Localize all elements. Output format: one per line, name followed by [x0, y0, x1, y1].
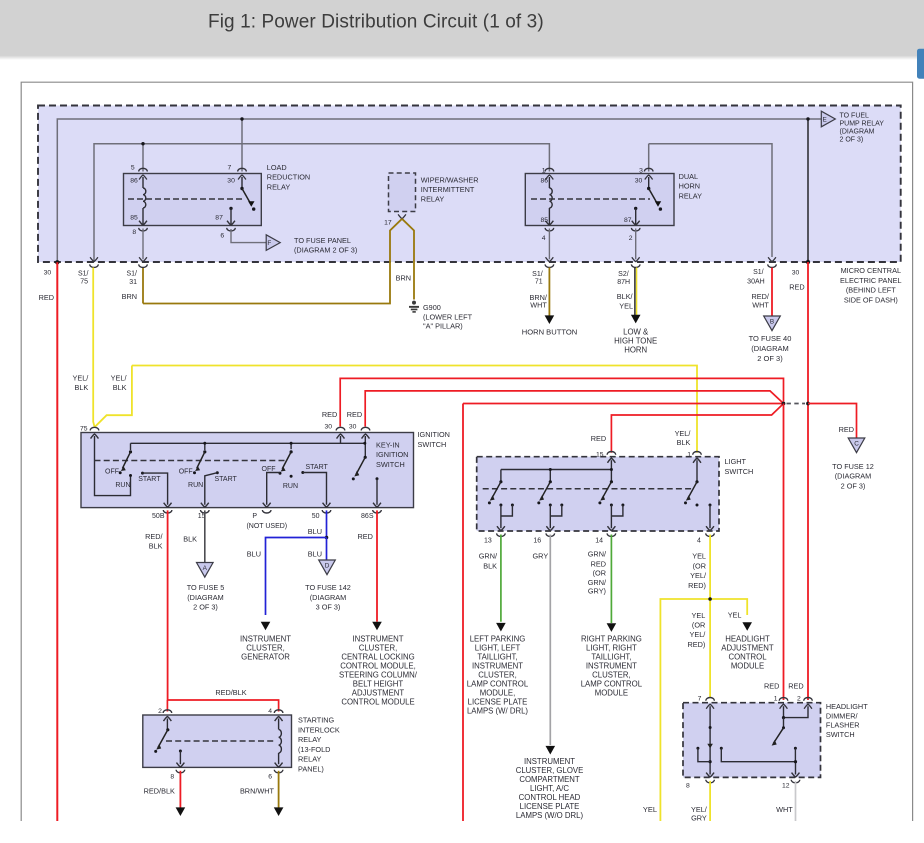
svg-text:BRN/WHT: BRN/WHT	[240, 787, 275, 796]
svg-text:S1/: S1/	[78, 270, 89, 277]
svg-text:Fig 1: Power Distribution Circ: Fig 1: Power Distribution Circuit (1 of …	[208, 12, 544, 33]
svg-text:8: 8	[170, 774, 174, 781]
svg-text:START: START	[306, 464, 329, 471]
svg-text:CONTROL: CONTROL	[728, 652, 767, 661]
svg-text:SWITCH: SWITCH	[418, 440, 447, 449]
svg-text:TAILLIGHT,: TAILLIGHT,	[591, 652, 631, 661]
svg-text:YEL: YEL	[692, 552, 706, 561]
svg-text:CLUSTER,: CLUSTER,	[592, 670, 631, 679]
svg-text:INSTRUMENT: INSTRUMENT	[524, 757, 575, 766]
svg-text:OFF: OFF	[105, 468, 119, 475]
svg-text:INSTRUMENT: INSTRUMENT	[472, 661, 523, 670]
svg-text:LAMPS (W/O DRL): LAMPS (W/O DRL)	[516, 811, 584, 820]
svg-text:CONTROL HEAD: CONTROL HEAD	[519, 793, 581, 802]
svg-text:85: 85	[540, 217, 548, 224]
svg-text:LIGHT: LIGHT	[725, 457, 747, 466]
svg-text:RED/BLK: RED/BLK	[144, 787, 175, 796]
svg-text:RED/: RED/	[145, 532, 163, 541]
svg-text:(OR: (OR	[693, 562, 706, 571]
svg-text:30: 30	[349, 424, 357, 431]
svg-text:PANEL): PANEL)	[298, 765, 324, 774]
svg-text:31: 31	[129, 279, 137, 286]
svg-text:4: 4	[542, 235, 546, 242]
svg-text:CLUSTER,: CLUSTER,	[359, 643, 398, 652]
svg-text:DIMMER/: DIMMER/	[826, 711, 859, 720]
svg-text:(DIAGRAM: (DIAGRAM	[840, 129, 875, 136]
svg-text:(DIAGRAM: (DIAGRAM	[187, 593, 224, 602]
svg-text:BLU: BLU	[308, 527, 322, 536]
svg-text:LEFT PARKING: LEFT PARKING	[470, 634, 526, 643]
svg-text:GRY: GRY	[691, 814, 707, 823]
svg-text:GRN/: GRN/	[479, 552, 498, 561]
svg-text:RELAY: RELAY	[298, 735, 322, 744]
svg-text:HEADLIGHT: HEADLIGHT	[826, 702, 868, 711]
svg-text:LIGHT, A/C: LIGHT, A/C	[530, 784, 569, 793]
svg-text:TO FUEL: TO FUEL	[840, 113, 870, 120]
svg-text:YEL/: YEL/	[690, 571, 707, 580]
svg-text:BLK: BLK	[483, 562, 497, 571]
svg-text:RED: RED	[764, 681, 779, 690]
svg-text:RED: RED	[839, 425, 854, 434]
svg-text:85: 85	[130, 215, 138, 222]
svg-text:SIDE OF DASH): SIDE OF DASH)	[844, 295, 898, 304]
svg-text:3: 3	[639, 167, 643, 174]
svg-text:YEL/: YEL/	[72, 374, 89, 383]
svg-text:TAILLIGHT,: TAILLIGHT,	[477, 652, 517, 661]
svg-text:B: B	[770, 319, 774, 326]
svg-text:S2/: S2/	[618, 271, 629, 278]
svg-text:BRN: BRN	[122, 292, 137, 301]
svg-text:(13-FOLD: (13-FOLD	[298, 745, 330, 754]
svg-text:P: P	[252, 513, 257, 520]
svg-text:SWITCH: SWITCH	[826, 730, 855, 739]
svg-text:50B: 50B	[152, 513, 165, 520]
svg-text:YEL: YEL	[692, 611, 706, 620]
svg-text:MODULE: MODULE	[595, 688, 628, 697]
svg-text:HORN BUTTON: HORN BUTTON	[522, 327, 578, 336]
svg-text:2: 2	[629, 235, 633, 242]
svg-text:SWITCH: SWITCH	[376, 460, 405, 469]
svg-text:(OR: (OR	[593, 569, 606, 578]
svg-text:RED): RED)	[687, 640, 705, 649]
svg-text:1: 1	[542, 167, 546, 174]
svg-text:START: START	[215, 476, 238, 483]
svg-text:C: C	[854, 441, 859, 448]
svg-text:LOW &: LOW &	[623, 328, 649, 337]
svg-text:87H: 87H	[617, 279, 630, 286]
svg-text:LAMP CONTROL: LAMP CONTROL	[467, 679, 529, 688]
svg-text:BLK: BLK	[113, 383, 127, 392]
svg-text:KEY-IN: KEY-IN	[376, 440, 400, 449]
svg-text:RED/BLK: RED/BLK	[215, 688, 246, 697]
svg-text:6: 6	[220, 233, 224, 240]
svg-text:S1/: S1/	[532, 271, 543, 278]
svg-text:INTERLOCK: INTERLOCK	[298, 725, 340, 734]
svg-text:STARTING: STARTING	[298, 716, 335, 725]
svg-text:TO FUSE 12: TO FUSE 12	[832, 462, 874, 471]
svg-text:YEL/: YEL/	[675, 429, 692, 438]
svg-text:OFF: OFF	[262, 466, 276, 473]
svg-text:WHT: WHT	[752, 301, 769, 310]
svg-text:TO FUSE 142: TO FUSE 142	[305, 583, 351, 592]
svg-text:CENTRAL LOCKING: CENTRAL LOCKING	[341, 652, 414, 661]
svg-text:BLU: BLU	[308, 550, 322, 559]
svg-text:YEL/: YEL/	[111, 374, 128, 383]
svg-text:REDUCTION: REDUCTION	[267, 173, 310, 182]
svg-text:8: 8	[686, 782, 690, 789]
svg-text:GRY: GRY	[533, 552, 549, 561]
svg-text:SWITCH: SWITCH	[725, 467, 754, 476]
svg-text:(OR: (OR	[692, 621, 705, 630]
svg-text:BLK: BLK	[149, 541, 163, 550]
svg-text:HIGH TONE: HIGH TONE	[614, 337, 657, 346]
svg-text:LIGHT, RIGHT: LIGHT, RIGHT	[586, 643, 637, 652]
svg-text:30: 30	[324, 424, 332, 431]
svg-text:LIGHT, LEFT: LIGHT, LEFT	[475, 643, 521, 652]
svg-text:IGNITION: IGNITION	[376, 450, 408, 459]
svg-text:F: F	[267, 240, 271, 247]
svg-text:30: 30	[635, 177, 643, 184]
svg-text:TO FUSE 5: TO FUSE 5	[187, 583, 225, 592]
svg-text:ELECTRIC PANEL: ELECTRIC PANEL	[840, 276, 902, 285]
svg-text:2 OF 3): 2 OF 3)	[757, 354, 783, 363]
svg-text:4: 4	[697, 537, 701, 544]
svg-text:LOAD: LOAD	[267, 163, 287, 172]
svg-text:D: D	[325, 563, 330, 570]
svg-text:STEERING COLUMN/: STEERING COLUMN/	[339, 670, 418, 679]
svg-text:RED: RED	[322, 410, 337, 419]
svg-text:(NOT USED): (NOT USED)	[246, 523, 287, 530]
svg-text:RELAY: RELAY	[298, 755, 322, 764]
svg-text:OFF: OFF	[179, 468, 193, 475]
svg-text:87: 87	[624, 217, 632, 224]
svg-text:2 OF 3): 2 OF 3)	[841, 481, 866, 490]
svg-text:BELT HEIGHT: BELT HEIGHT	[353, 679, 404, 688]
svg-text:GRY): GRY)	[588, 587, 606, 596]
svg-text:GENERATOR: GENERATOR	[241, 652, 290, 661]
svg-text:YEL: YEL	[728, 611, 742, 620]
svg-text:RED: RED	[591, 560, 606, 569]
svg-text:MODULE,: MODULE,	[480, 688, 516, 697]
svg-text:CLUSTER,: CLUSTER,	[246, 643, 285, 652]
svg-text:S1/: S1/	[753, 269, 764, 276]
svg-text:BLK: BLK	[677, 438, 691, 447]
svg-text:GRN/: GRN/	[588, 578, 607, 587]
svg-text:START: START	[138, 476, 161, 483]
svg-text:14: 14	[595, 537, 603, 544]
svg-text:FLASHER: FLASHER	[826, 721, 860, 730]
svg-text:BLU: BLU	[247, 550, 261, 559]
svg-text:S1/: S1/	[126, 270, 137, 277]
svg-text:RUN: RUN	[115, 482, 130, 489]
svg-text:7: 7	[228, 164, 232, 171]
svg-text:2: 2	[797, 695, 801, 702]
svg-text:RED: RED	[788, 681, 803, 690]
svg-text:ADJUSTMENT: ADJUSTMENT	[721, 643, 774, 652]
svg-text:BLK: BLK	[183, 535, 197, 544]
svg-text:INSTRUMENT: INSTRUMENT	[352, 634, 403, 643]
svg-text:RELAY: RELAY	[267, 182, 291, 191]
svg-text:IGNITION: IGNITION	[418, 430, 450, 439]
svg-text:1: 1	[687, 451, 691, 458]
svg-text:71: 71	[535, 279, 543, 286]
svg-text:"A" PILLAR): "A" PILLAR)	[423, 322, 463, 331]
svg-text:RUN: RUN	[188, 482, 203, 489]
svg-text:LICENSE PLATE: LICENSE PLATE	[468, 697, 528, 706]
svg-text:MODULE: MODULE	[731, 661, 764, 670]
svg-text:(DIAGRAM: (DIAGRAM	[310, 593, 347, 602]
svg-text:TO FUSE PANEL: TO FUSE PANEL	[294, 236, 351, 245]
svg-text:30AH: 30AH	[747, 278, 765, 285]
svg-text:TO FUSE 40: TO FUSE 40	[749, 334, 792, 343]
svg-text:YEL: YEL	[643, 805, 657, 814]
svg-text:WHT: WHT	[530, 301, 547, 310]
svg-text:YEL/: YEL/	[689, 630, 706, 639]
svg-text:RED: RED	[789, 283, 804, 292]
svg-text:LAMP CONTROL: LAMP CONTROL	[581, 679, 643, 688]
svg-text:2: 2	[158, 708, 162, 715]
svg-text:1: 1	[774, 695, 778, 702]
svg-text:75: 75	[80, 426, 88, 433]
svg-text:50: 50	[312, 513, 320, 520]
svg-text:30: 30	[44, 269, 52, 276]
svg-text:7: 7	[698, 695, 702, 702]
svg-text:2 OF 3): 2 OF 3)	[193, 603, 218, 612]
svg-text:30: 30	[227, 177, 235, 184]
svg-text:(DIAGRAM: (DIAGRAM	[835, 472, 872, 481]
svg-text:86: 86	[540, 177, 548, 184]
svg-text:(LOWER LEFT: (LOWER LEFT	[423, 312, 473, 321]
svg-text:87: 87	[215, 215, 223, 222]
svg-text:RELAY: RELAY	[421, 195, 445, 204]
svg-text:BLK/: BLK/	[617, 292, 634, 301]
svg-text:CONTROL MODULE,: CONTROL MODULE,	[340, 661, 416, 670]
svg-text:A: A	[203, 565, 208, 572]
svg-text:WHT: WHT	[776, 805, 793, 814]
svg-text:RIGHT PARKING: RIGHT PARKING	[581, 634, 642, 643]
svg-text:HEADLIGHT: HEADLIGHT	[725, 634, 770, 643]
svg-text:86: 86	[130, 177, 138, 184]
svg-text:15: 15	[596, 451, 604, 458]
svg-text:CLUSTER, GLOVE: CLUSTER, GLOVE	[516, 766, 584, 775]
svg-text:12: 12	[782, 782, 790, 789]
svg-text:86S: 86S	[361, 513, 374, 520]
svg-text:INTERMITTENT: INTERMITTENT	[421, 185, 475, 194]
svg-text:75: 75	[80, 279, 88, 286]
svg-text:RED: RED	[357, 532, 372, 541]
svg-text:(DIAGRAM: (DIAGRAM	[751, 344, 789, 353]
svg-text:HORN: HORN	[624, 346, 647, 355]
svg-text:RELAY: RELAY	[679, 191, 703, 200]
svg-text:MICRO CENTRAL: MICRO CENTRAL	[841, 266, 901, 275]
svg-text:5: 5	[131, 164, 135, 171]
svg-text:HORN: HORN	[679, 182, 701, 191]
svg-text:8: 8	[132, 229, 136, 236]
svg-text:BRN: BRN	[396, 273, 411, 282]
svg-text:YEL: YEL	[619, 302, 633, 311]
svg-text:13: 13	[484, 537, 492, 544]
svg-text:CLUSTER,: CLUSTER,	[478, 670, 517, 679]
svg-text:COMPARTMENT: COMPARTMENT	[519, 775, 580, 784]
svg-text:INSTRUMENT: INSTRUMENT	[586, 661, 637, 670]
svg-text:CONTROL MODULE: CONTROL MODULE	[341, 697, 414, 706]
svg-text:PUMP RELAY: PUMP RELAY	[840, 121, 885, 128]
svg-text:LAMPS (W/ DRL): LAMPS (W/ DRL)	[467, 706, 528, 715]
svg-text:2 OF 3): 2 OF 3)	[840, 137, 864, 144]
svg-text:RED: RED	[591, 434, 606, 443]
svg-text:DUAL: DUAL	[679, 172, 698, 181]
svg-text:4: 4	[268, 708, 272, 715]
svg-text:RED): RED)	[688, 581, 706, 590]
svg-text:RUN: RUN	[283, 483, 298, 490]
svg-text:3 OF 3): 3 OF 3)	[316, 603, 341, 612]
svg-text:E: E	[823, 117, 827, 124]
svg-text:30: 30	[792, 269, 800, 276]
svg-text:(BEHIND LEFT: (BEHIND LEFT	[846, 286, 896, 295]
svg-text:G900: G900	[423, 303, 441, 312]
svg-text:RED: RED	[347, 410, 362, 419]
svg-text:6: 6	[268, 774, 272, 781]
svg-text:INSTRUMENT: INSTRUMENT	[240, 634, 291, 643]
svg-text:ADJUSTMENT: ADJUSTMENT	[352, 688, 405, 697]
svg-text:(DIAGRAM 2 OF 3): (DIAGRAM 2 OF 3)	[294, 246, 357, 255]
svg-text:17: 17	[384, 220, 392, 227]
svg-text:16: 16	[533, 537, 541, 544]
svg-text:GRN/: GRN/	[588, 550, 607, 559]
svg-text:RED: RED	[39, 293, 54, 302]
svg-text:WIPER/WASHER: WIPER/WASHER	[421, 175, 479, 184]
svg-text:BLK: BLK	[75, 383, 89, 392]
svg-text:LICENSE PLATE: LICENSE PLATE	[520, 802, 580, 811]
